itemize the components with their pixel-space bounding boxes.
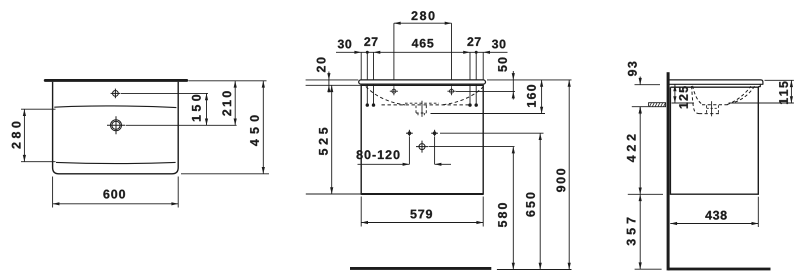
side view: dashed bowl profile bbox=[693, 86, 702, 104]
front view: dimension 650 bbox=[539, 133, 541, 269]
front view: dimension 579 bbox=[361, 222, 483, 224]
side view: dimension 357 bbox=[639, 194, 641, 269]
front view: dimension row 30/27/465/27/30 bbox=[336, 51, 508, 53]
side view: dimension 115 bbox=[790, 80, 792, 103]
side view: washbasin deck profile (outlined) bbox=[669, 80, 763, 87]
left view: inner rim front curve bbox=[54, 106, 176, 108]
front view: floor line bbox=[350, 267, 491, 270]
front view: fixing hole cross left bbox=[408, 132, 411, 135]
side view: dimension 125 bbox=[674, 85, 676, 104]
front view: extension line from drain outlet to 580 bbox=[429, 146, 515, 148]
side view: dimension 438 extension line bbox=[757, 197, 759, 227]
front view: tap hole crosshair left bbox=[392, 89, 396, 93]
side view: cabinet outline bbox=[670, 87, 758, 194]
front view: cabinet outline bbox=[361, 85, 483, 194]
front view: dimension 20 (deck thickness) bbox=[306, 79, 359, 81]
front view: dimension 160 bbox=[541, 80, 543, 114]
side view: floor line bbox=[668, 268, 771, 271]
left view: basin outline bbox=[53, 82, 179, 174]
left view: dimension 210 bbox=[234, 81, 236, 126]
front view: drain outlet crosshair bbox=[419, 144, 425, 150]
front view: dimension 280 (tap holes) bbox=[394, 22, 452, 24]
left view: small tap hole crosshair bbox=[113, 91, 119, 97]
side view: dimension 422 bbox=[639, 107, 641, 195]
front view: deck drill dots bbox=[366, 103, 369, 106]
left view: dimension 280 bbox=[23, 109, 25, 162]
front view: dimension 50 (tap hole depth) bbox=[456, 91, 515, 93]
front view: drain centerline bbox=[421, 101, 423, 117]
front view: drain leader line (160) bbox=[431, 113, 546, 115]
side view: dashed drain fitting bbox=[706, 105, 708, 113]
side view: dimension 93 bbox=[635, 84, 661, 86]
side view: extension lines for 115 bbox=[765, 79, 794, 81]
left view: bottom extension line for 450 bbox=[181, 173, 269, 175]
left view: dimension 600 bbox=[53, 203, 179, 205]
left view: extension lines for 280 bbox=[21, 108, 56, 110]
front view: dimension 80-120 (outlet range) bbox=[408, 137, 410, 164]
front view: bottom extension line for 580/650/900 bbox=[497, 269, 572, 271]
front view: top extension line to 900 bbox=[487, 79, 572, 81]
side view: extension lines for 125 bbox=[672, 102, 695, 104]
front view: dashed bowl outline bbox=[366, 86, 405, 105]
left view: large tap hole crosshair bbox=[111, 120, 122, 131]
left view: inner bottom curve bbox=[56, 162, 176, 163]
left view: extension line from large hole to 210 dim bbox=[126, 124, 237, 126]
front view: dimension 525 (cabinet height) bbox=[331, 85, 333, 194]
front view: dimension 900 bbox=[568, 80, 570, 270]
left view: extension lines for 600 bbox=[52, 177, 54, 208]
front view: dimension 580 bbox=[512, 147, 514, 270]
front view: extension line from fixing holes to 650 bbox=[440, 132, 544, 134]
side view: dimension 438 bbox=[670, 223, 758, 225]
front view: fixing hole cross right bbox=[433, 132, 436, 135]
front view: washbasin deck profile (outlined) bbox=[359, 80, 486, 84]
left view: top extension line for 210/450 bbox=[189, 80, 267, 82]
front view: tap hole crosshair right bbox=[450, 89, 454, 93]
front view: extension ticks down from dimension row bbox=[360, 52, 362, 80]
left view: washbasin back rail (thick bar) bbox=[44, 79, 188, 82]
left view: extension line from small hole to 150 dim bbox=[121, 92, 208, 94]
left view: dimension 150 bbox=[206, 93, 208, 125]
side view: drain centerline bbox=[711, 101, 713, 116]
front view: extension lines from 280 to tap hole crosses bbox=[393, 23, 395, 87]
side view: wall line bbox=[667, 72, 670, 270]
front view: dashed drain fitting bbox=[405, 102, 439, 104]
left view: dimension 450 bbox=[262, 81, 264, 174]
front view: dimension 579 extension lines bbox=[360, 197, 362, 227]
side view: wall mounting rail (hatched) bbox=[649, 103, 666, 107]
